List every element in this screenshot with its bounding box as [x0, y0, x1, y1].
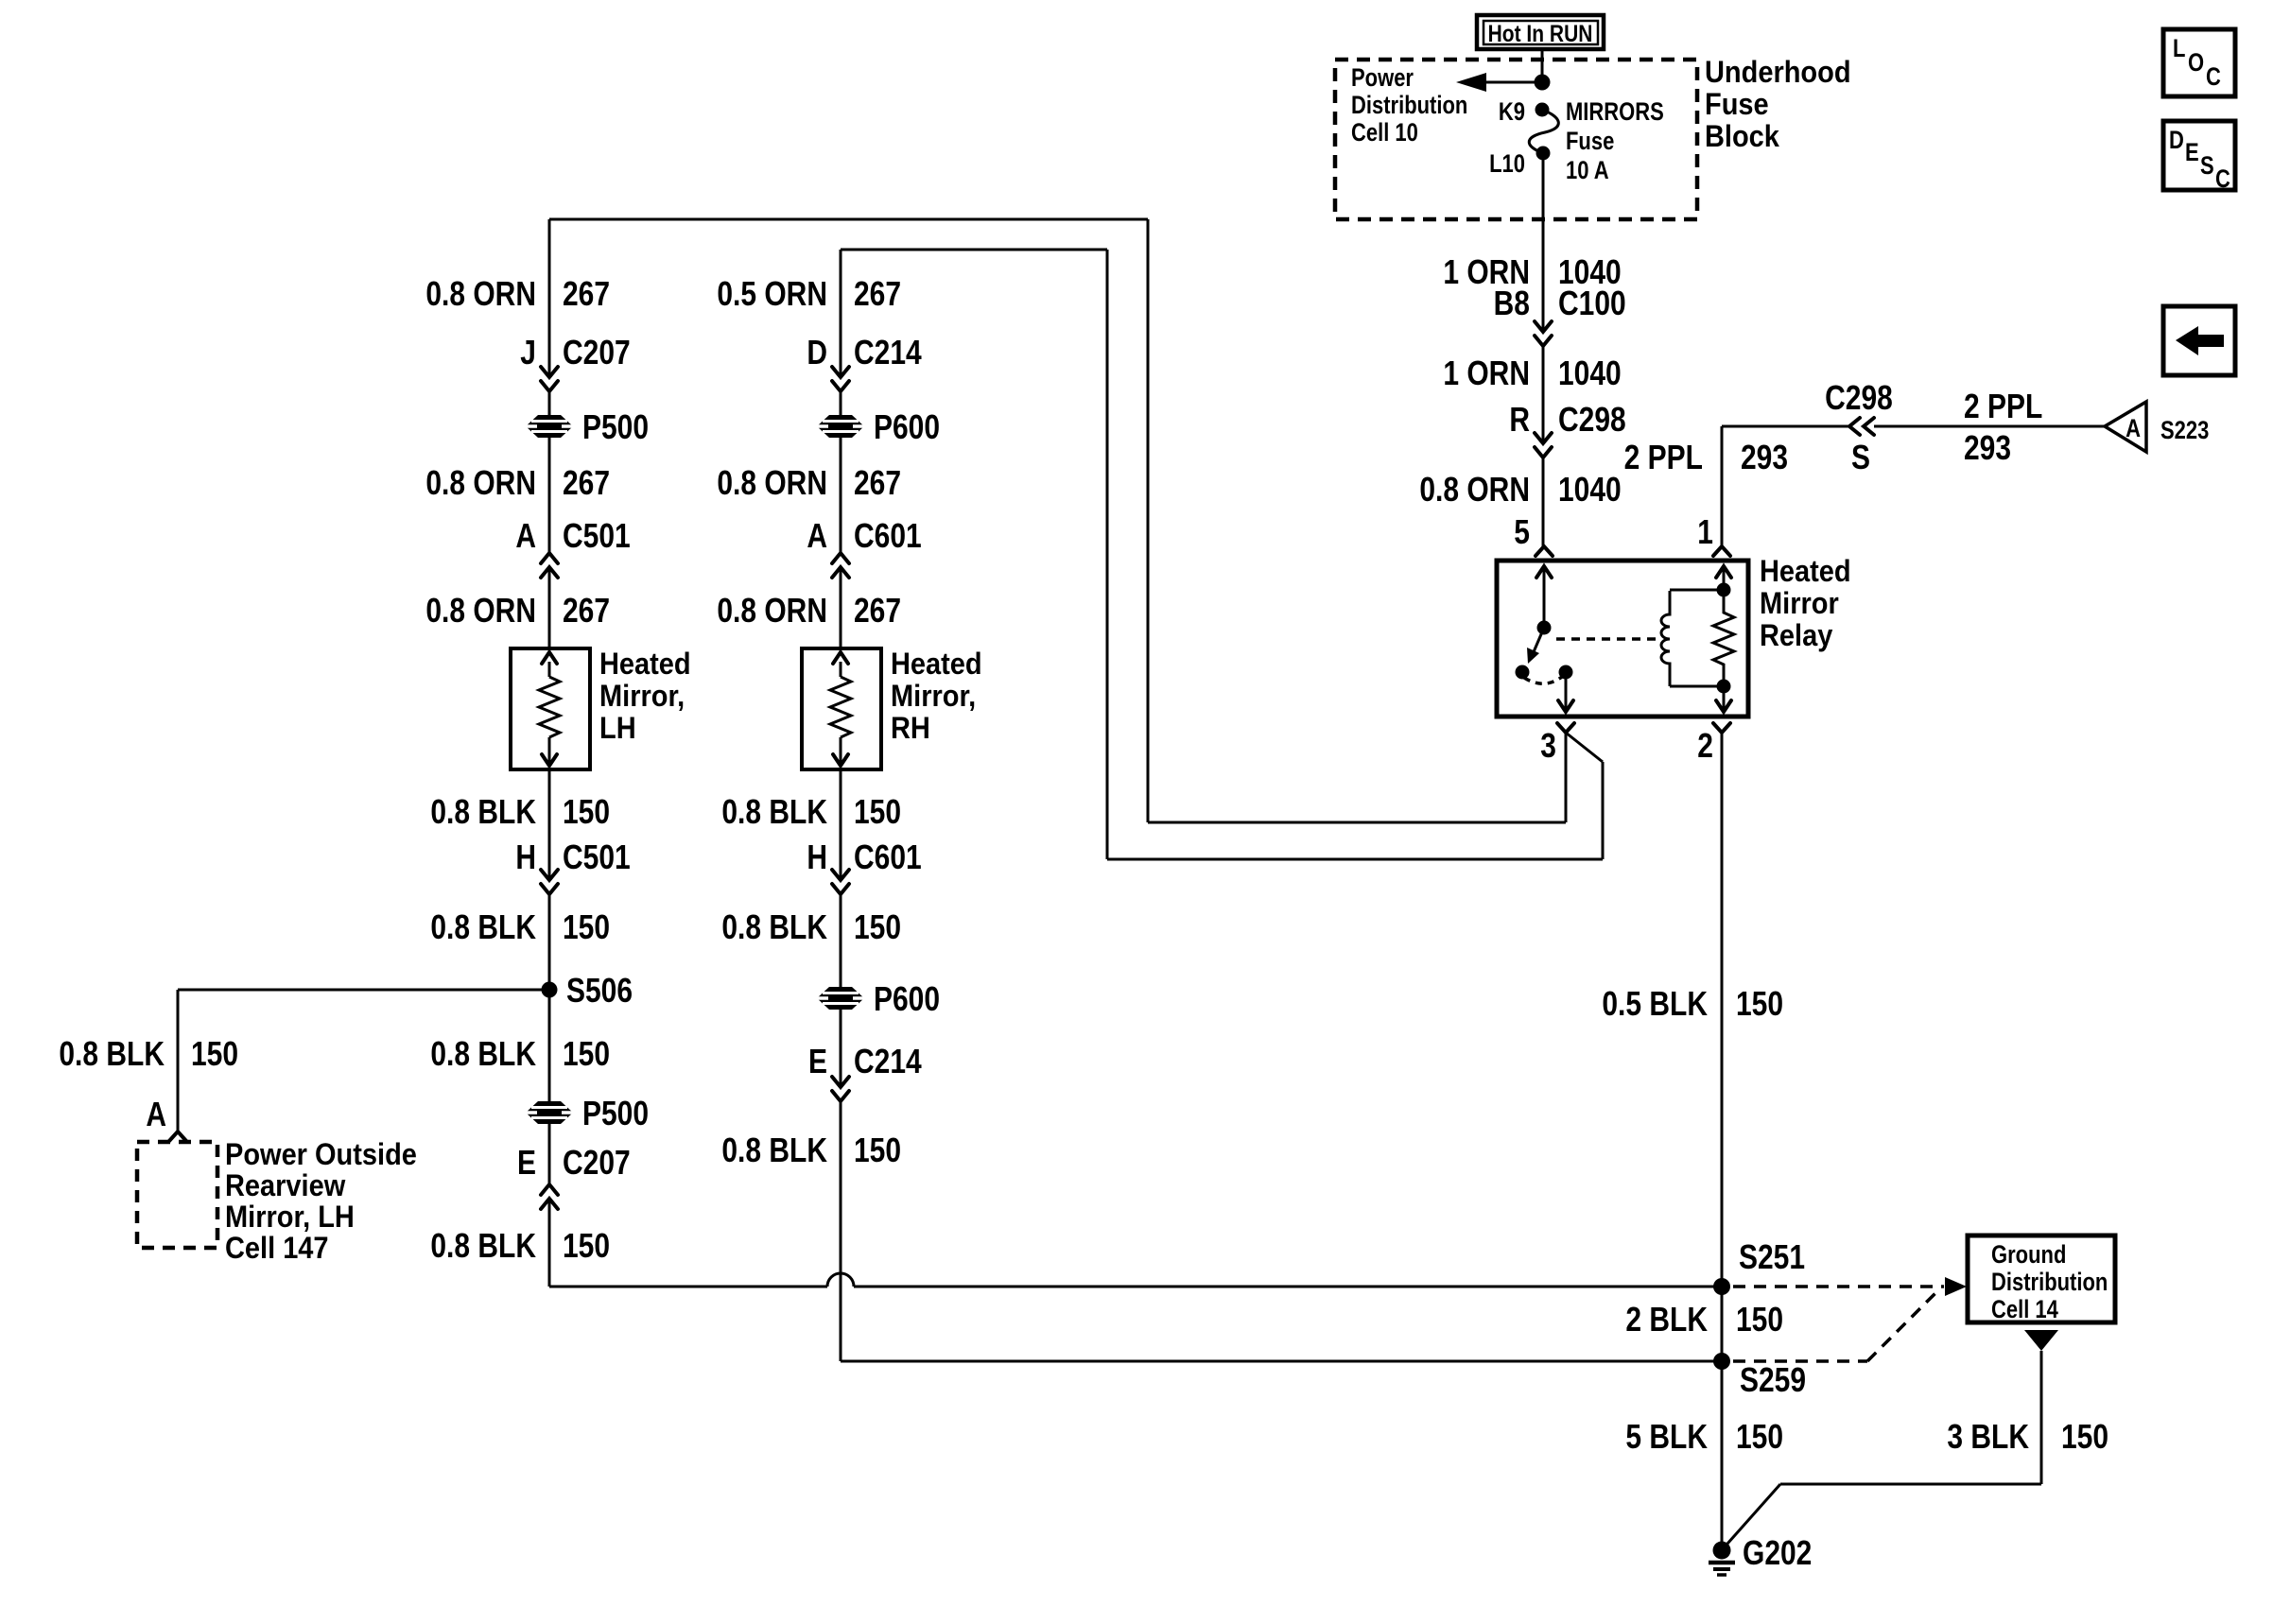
- wire label 0.8 ORN 267: [717, 464, 901, 502]
- relay pin 2 internal arrow: [1716, 686, 1731, 712]
- relay pin 1 cavity chevron: [1713, 546, 1730, 556]
- wire label 0.8 ORN 267: [425, 275, 610, 313]
- svg-text:1040: 1040: [1558, 354, 1622, 392]
- svg-text:E: E: [517, 1144, 536, 1182]
- svg-text:150: 150: [854, 1132, 901, 1169]
- svg-text:S: S: [2200, 152, 2214, 180]
- connector C501 chevrons (return): [541, 870, 558, 894]
- svg-text:C207: C207: [563, 334, 631, 371]
- svg-text:0.8 ORN: 0.8 ORN: [425, 464, 536, 502]
- svg-text:MIRRORS: MIRRORS: [1566, 98, 1664, 126]
- pin label A / connector label C601: [807, 517, 921, 555]
- svg-text:S: S: [1851, 439, 1870, 476]
- pass-through grommet P500: [526, 415, 573, 438]
- relay switch pivot dot: [1537, 621, 1552, 635]
- wire label 0.8 BLK 150: [721, 793, 901, 831]
- svg-text:C501: C501: [563, 517, 631, 555]
- svg-text:E: E: [808, 1043, 827, 1080]
- svg-text:C298: C298: [1825, 379, 1893, 417]
- svg-text:1040: 1040: [1558, 471, 1622, 509]
- junction dot coil top: [1717, 583, 1731, 597]
- dashed reference from S259 to Ground Distribution: [1733, 1290, 1938, 1361]
- svg-text:0.8 BLK: 0.8 BLK: [721, 908, 827, 946]
- pin label A / connector label C501: [515, 517, 630, 555]
- svg-text:150: 150: [2061, 1418, 2108, 1456]
- wire label 1 ORN 1040: [1443, 253, 1621, 291]
- wire branch from S506 to mirror connector A: [178, 990, 549, 1131]
- label Power Outside Rearview Mirror, LH Cell 147: [225, 1136, 417, 1265]
- svg-text:RH: RH: [891, 710, 930, 745]
- svg-text:1 ORN: 1 ORN: [1443, 354, 1530, 392]
- svg-text:0.8 BLK: 0.8 BLK: [430, 1227, 536, 1265]
- svg-text:E: E: [2185, 139, 2199, 166]
- svg-text:0.8 ORN: 0.8 ORN: [717, 464, 827, 502]
- svg-text:2 PPL: 2 PPL: [1964, 388, 2042, 425]
- svg-text:150: 150: [854, 793, 901, 831]
- relay movable contact arm: [1527, 628, 1544, 664]
- wire label 0.8 BLK 150: [430, 793, 610, 831]
- svg-text:A: A: [146, 1096, 166, 1133]
- svg-text:Mirror, LH: Mirror, LH: [225, 1199, 355, 1234]
- svg-text:C100: C100: [1558, 285, 1626, 322]
- svg-text:2 BLK: 2 BLK: [1625, 1301, 1708, 1339]
- svg-text:Mirror,: Mirror,: [599, 678, 685, 713]
- svg-text:Power Outside: Power Outside: [225, 1136, 417, 1171]
- wire label 0.8 BLK 150 (below S506): [430, 1035, 610, 1073]
- splice symbol S223 triangle with A: [2105, 402, 2146, 452]
- relay contact dashed throw arc: [1524, 677, 1562, 683]
- relay pin 3 internal arrow: [1558, 672, 1573, 712]
- wire label 1 ORN 1040: [1443, 354, 1621, 392]
- ground distribution output arrow: [2024, 1330, 2058, 1351]
- wire label 2 PPL 293 (left of corner): [1624, 439, 1788, 476]
- wire label 0.8 ORN 267: [425, 592, 610, 630]
- mirror connector cavity chevron: [169, 1132, 186, 1141]
- svg-text:B8: B8: [1494, 285, 1530, 322]
- relay internal resistor: [1713, 590, 1734, 686]
- svg-text:150: 150: [563, 908, 610, 946]
- wire label 0.8 BLK 150 (to S259): [721, 1132, 901, 1169]
- splice dot S259: [1713, 1353, 1730, 1370]
- Underhood Fuse Block dashed box: [1335, 60, 1697, 219]
- svg-text:C214: C214: [854, 334, 922, 371]
- svg-text:0.8 ORN: 0.8 ORN: [425, 592, 536, 630]
- connector C100 chevrons: [1535, 321, 1552, 346]
- pin label B8 / connector label C100: [1494, 285, 1626, 322]
- wire from Hot In RUN into fuse block: [1541, 49, 1544, 82]
- connector C214 chevrons: [832, 367, 849, 391]
- connector C207 chevrons: [541, 367, 558, 391]
- pin label D / connector label C214: [807, 334, 922, 371]
- svg-text:A: A: [2126, 415, 2141, 442]
- relay pin 1 internal arrow: [1716, 566, 1731, 590]
- svg-text:S506: S506: [566, 972, 633, 1010]
- svg-text:3: 3: [1540, 727, 1556, 765]
- Heated Mirror LH box: [511, 648, 590, 769]
- wire relay pin 3 to left mirror circuit (outer loop): [549, 219, 1566, 822]
- svg-text:P600: P600: [874, 980, 940, 1018]
- svg-text:S251: S251: [1739, 1238, 1805, 1276]
- wire relay pin 3 to right mirror circuit (inner loop): [841, 250, 1603, 859]
- svg-text:A: A: [807, 517, 827, 555]
- wire label 0.8 BLK 150 (branch): [59, 1035, 238, 1073]
- svg-text:150: 150: [1736, 1418, 1783, 1456]
- svg-text:D: D: [807, 334, 827, 371]
- relay output contact dot (pin 3): [1559, 665, 1573, 680]
- svg-text:293: 293: [1964, 429, 2011, 467]
- relay coil: [1661, 591, 1670, 686]
- svg-text:150: 150: [563, 1035, 610, 1073]
- svg-text:Cell 147: Cell 147: [225, 1230, 329, 1265]
- svg-text:P600: P600: [874, 408, 940, 446]
- wire label 0.8 ORN 1040: [1419, 471, 1621, 509]
- svg-text:H: H: [807, 838, 827, 876]
- wire label 2 PPL 293 (right): [1964, 388, 2042, 467]
- coil to resistor top link: [1670, 589, 1724, 592]
- relay pin 5 cavity chevron: [1536, 546, 1553, 556]
- label Heated Mirror, LH: [599, 646, 691, 745]
- svg-text:Block: Block: [1705, 118, 1780, 153]
- connector C601 chevrons: [832, 553, 849, 578]
- LOC legend box: [2163, 29, 2235, 96]
- wire label 0.8 BLK 150 (to S251): [430, 1227, 610, 1265]
- heated mirror RH element resistor: [830, 652, 851, 766]
- relay coil actuation dashed link: [1556, 637, 1657, 641]
- svg-text:Relay: Relay: [1760, 617, 1832, 652]
- svg-text:150: 150: [854, 908, 901, 946]
- svg-text:Underhood: Underhood: [1705, 54, 1851, 89]
- svg-text:S223: S223: [2160, 417, 2209, 444]
- svg-text:A: A: [515, 517, 536, 555]
- wire label 0.8 ORN 267: [425, 464, 610, 502]
- DESC legend box: [2163, 121, 2235, 194]
- splice dot S506: [542, 982, 558, 998]
- fuse MIRRORS 10A element: [1529, 110, 1558, 153]
- terminal dot L10: [1536, 147, 1551, 161]
- connector C298 chevrons: [1535, 433, 1552, 458]
- svg-text:1: 1: [1697, 513, 1713, 551]
- relay pin 3 cavity chevron: [1557, 723, 1574, 733]
- connector C501 chevrons: [541, 553, 558, 578]
- heated mirror LH element resistor: [539, 652, 560, 766]
- label Heated Mirror, RH: [891, 646, 982, 745]
- label MIRRORS Fuse 10 A: [1566, 98, 1664, 184]
- svg-text:5 BLK: 5 BLK: [1625, 1418, 1708, 1456]
- svg-text:Distribution: Distribution: [1351, 92, 1467, 119]
- svg-text:267: 267: [563, 592, 610, 630]
- svg-text:C298: C298: [1558, 401, 1626, 439]
- svg-text:0.8 ORN: 0.8 ORN: [717, 592, 827, 630]
- svg-text:Power: Power: [1351, 64, 1414, 92]
- wire label 5 BLK 150: [1625, 1418, 1783, 1456]
- svg-text:P500: P500: [582, 1095, 649, 1132]
- svg-text:Mirror: Mirror: [1760, 585, 1839, 620]
- svg-text:267: 267: [563, 464, 610, 502]
- pin label R / connector label C298: [1509, 401, 1625, 439]
- wire label 0.8 ORN 267: [717, 592, 901, 630]
- wire label 3 BLK 150: [1947, 1418, 2108, 1456]
- dashed reference from S251 to Ground Distribution: [1733, 1277, 1967, 1296]
- svg-text:Heated: Heated: [1760, 553, 1851, 588]
- terminal dot K9: [1536, 103, 1550, 117]
- svg-text:L: L: [2173, 35, 2186, 62]
- svg-text:O: O: [2188, 49, 2204, 77]
- wire label 0.5 BLK 150: [1602, 985, 1783, 1023]
- Ground Distribution Cell 14 box: [1968, 1235, 2115, 1322]
- pass-through grommet P600: [817, 415, 864, 438]
- ground G202: [1709, 1542, 1735, 1576]
- connector C214 chevrons (return): [832, 1077, 849, 1101]
- svg-text:267: 267: [854, 275, 901, 313]
- label Heated Mirror Relay: [1760, 553, 1851, 652]
- wire label 0.5 ORN 267: [717, 275, 901, 313]
- svg-text:Mirror,: Mirror,: [891, 678, 976, 713]
- pin label H / connector label C601: [807, 838, 921, 876]
- svg-text:Fuse: Fuse: [1566, 128, 1614, 155]
- svg-text:0.8 BLK: 0.8 BLK: [430, 1035, 536, 1073]
- svg-text:2 PPL: 2 PPL: [1624, 439, 1703, 476]
- wire right mirror return to S259: [841, 1360, 1722, 1363]
- svg-text:Rearview: Rearview: [225, 1167, 345, 1202]
- svg-text:267: 267: [563, 275, 610, 313]
- svg-text:Heated: Heated: [891, 646, 982, 681]
- svg-text:10 A: 10 A: [1566, 157, 1609, 184]
- pin label E / connector label C207: [517, 1144, 631, 1182]
- wire right heated mirror circuit vertical: [840, 250, 842, 1361]
- svg-text:0.8 BLK: 0.8 BLK: [721, 793, 827, 831]
- svg-text:150: 150: [563, 793, 610, 831]
- svg-text:Cell 14: Cell 14: [1991, 1296, 2058, 1323]
- svg-text:K9: K9: [1499, 98, 1525, 126]
- wire label 0.8 BLK 150: [721, 908, 901, 946]
- node dot at power distribution tap: [1535, 75, 1551, 91]
- svg-text:0.8 ORN: 0.8 ORN: [1419, 471, 1530, 509]
- svg-text:C601: C601: [854, 517, 922, 555]
- wire fuse output L10 down to relay pin 5: [1542, 153, 1545, 546]
- label Power Distribution Cell 10: [1351, 64, 1467, 147]
- svg-text:0.5 BLK: 0.5 BLK: [1602, 985, 1708, 1023]
- svg-text:P500: P500: [582, 408, 649, 446]
- wire label 0.8 BLK 150: [430, 908, 610, 946]
- svg-text:Hot In RUN: Hot In RUN: [1488, 20, 1593, 46]
- junction dot coil bottom: [1717, 680, 1731, 694]
- svg-text:C: C: [2215, 165, 2230, 193]
- svg-text:2: 2: [1697, 727, 1713, 765]
- wire 2 PPL 293 from S223 to relay pin 1: [1722, 426, 2105, 546]
- svg-text:0.5 ORN: 0.5 ORN: [717, 275, 827, 313]
- svg-text:5: 5: [1514, 513, 1530, 551]
- label Underhood Fuse Block: [1705, 54, 1851, 153]
- wire left mirror return to S251 (with hop): [549, 1273, 1722, 1287]
- svg-text:L10: L10: [1489, 150, 1525, 178]
- svg-text:C601: C601: [854, 838, 922, 876]
- splice dot S251: [1713, 1278, 1730, 1295]
- svg-text:D: D: [2169, 127, 2184, 154]
- svg-text:R: R: [1509, 401, 1530, 439]
- svg-text:150: 150: [1736, 1301, 1783, 1339]
- Hot In RUN box: [1477, 15, 1604, 49]
- pin label H / connector label C501: [515, 838, 630, 876]
- connector C298 chevrons on PPL wire: [1849, 418, 1874, 435]
- svg-text:H: H: [515, 838, 536, 876]
- pass-through grommet P600 (return): [817, 987, 864, 1010]
- label Ground Distribution Cell 14: [1991, 1241, 2108, 1323]
- wire label 2 BLK 150: [1625, 1301, 1783, 1339]
- pin label J / connector label C207: [520, 334, 630, 371]
- svg-text:0.8 BLK: 0.8 BLK: [430, 793, 536, 831]
- svg-text:267: 267: [854, 592, 901, 630]
- Power Outside Rearview Mirror dashed box: [137, 1142, 217, 1248]
- svg-text:3 BLK: 3 BLK: [1947, 1418, 2029, 1456]
- coil to resistor bottom link: [1670, 685, 1724, 688]
- Heated Mirror RH box: [802, 648, 881, 769]
- svg-text:Fuse: Fuse: [1705, 86, 1769, 121]
- svg-text:150: 150: [1736, 985, 1783, 1023]
- svg-text:C501: C501: [563, 838, 631, 876]
- relay stationary contact dot: [1516, 665, 1530, 680]
- relay pin 2 cavity chevron: [1713, 723, 1730, 733]
- svg-text:267: 267: [854, 464, 901, 502]
- svg-text:0.8 BLK: 0.8 BLK: [430, 908, 536, 946]
- relay common feed (pin 5 internal arrow): [1536, 566, 1552, 628]
- wire 3 BLK 150 from ground distribution to G202: [1727, 1351, 2041, 1544]
- arrow to Power Distribution: [1456, 73, 1542, 92]
- svg-text:0.8 ORN: 0.8 ORN: [425, 275, 536, 313]
- pin label E / connector label C214: [808, 1043, 922, 1080]
- svg-text:0.8 BLK: 0.8 BLK: [59, 1035, 165, 1073]
- svg-text:G202: G202: [1743, 1534, 1812, 1572]
- svg-text:C214: C214: [854, 1043, 922, 1080]
- svg-text:0.8 BLK: 0.8 BLK: [721, 1132, 827, 1169]
- Heated Mirror Relay box: [1497, 561, 1748, 717]
- svg-text:Distribution: Distribution: [1991, 1269, 2108, 1296]
- svg-text:J: J: [520, 334, 536, 371]
- connector C207 chevrons (return): [541, 1184, 558, 1209]
- svg-text:Heated: Heated: [599, 646, 691, 681]
- svg-text:Cell 10: Cell 10: [1351, 119, 1418, 147]
- wire relay pin 2 ground return: [1721, 733, 1724, 1550]
- connector C601 chevrons (return): [832, 870, 849, 894]
- svg-text:150: 150: [191, 1035, 238, 1073]
- pass-through grommet P500 (return): [526, 1101, 573, 1124]
- svg-text:LH: LH: [599, 710, 636, 745]
- svg-text:C: C: [2206, 63, 2221, 91]
- back arrow legend box: [2163, 306, 2235, 375]
- wire left heated mirror circuit vertical: [548, 219, 551, 1287]
- svg-text:C207: C207: [563, 1144, 631, 1182]
- svg-text:S259: S259: [1740, 1361, 1806, 1399]
- svg-text:293: 293: [1741, 439, 1788, 476]
- svg-text:Ground: Ground: [1991, 1241, 2066, 1269]
- svg-text:150: 150: [563, 1227, 610, 1265]
